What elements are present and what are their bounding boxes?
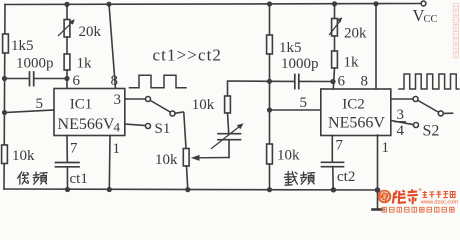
wire pin8 column IC1 [109,4,116,89]
wire pin5 row IC1 [5,110,55,113]
junction bottom bus / ct1 [65,187,70,192]
svg-text:20k: 20k [79,24,102,40]
wire pin8 column IC2 [375,4,377,89]
node pin6 IC1 [64,76,69,81]
op-amp IC2 NE566V box [321,89,391,136]
terminal Vcc [421,1,426,6]
wire ct2 to bus [332,167,334,190]
junction bottom bus / pin1 IC1 [107,187,112,192]
wire left vertical bus [4,5,5,190]
resistor 1k (IC1) [64,54,70,89]
variable capacitor [212,123,244,157]
watermark 电子市场网 small text [423,191,456,198]
svg-text:S1: S1 [155,121,171,137]
svg-text:7: 7 [336,138,344,154]
svg-text:1: 1 [382,140,390,156]
svg-text:3: 3 [397,107,405,123]
svg-text:IC2: IC2 [342,97,365,113]
watermark 维库 text [393,189,418,204]
squarewave low frequency [130,75,187,88]
capacitor 1000p (IC1) [5,72,68,86]
junction pin5 IC2 [267,107,272,112]
svg-text:1k5: 1k5 [11,38,34,54]
label 低频 (hand-drawn glyphs) [18,172,47,184]
svg-text:1000p: 1000p [281,56,319,72]
svg-text:1k5: 1k5 [279,40,302,56]
svg-text:10k: 10k [12,148,35,164]
IC2 left column 1k5 [267,4,273,144]
junction top bus / 20k IC1 [64,2,69,7]
junction top bus / 20k IC2 [332,1,337,6]
svg-text:NE566V: NE566V [328,115,385,132]
junction top bus / pin8 IC1 [106,2,111,7]
svg-text:3: 3 [114,92,122,108]
svg-text:8: 8 [111,73,119,89]
junction 1k5 / 1000p IC2 [267,79,272,84]
junction bottom bus / ct2 [331,187,336,192]
op-amp IC1 NE566V box [54,89,125,136]
resistor 1k (IC2) [332,51,338,89]
svg-text:5: 5 [300,95,308,111]
junction top bus / pin8 IC2 [373,1,378,6]
resistor 10k (IC2 lower) [267,144,273,190]
junction top bus / 1k5 IC2 [267,1,272,6]
svg-text:5: 5 [36,96,44,112]
resistor 10k (S1 leg, mid) [183,149,189,190]
svg-text:6: 6 [73,73,81,89]
wire pin5 row IC2 [270,109,321,111]
wire pin1 IC1 [108,136,111,190]
svg-text:IC1: IC1 [70,97,93,113]
svg-text:10k: 10k [192,97,215,113]
svg-text:7: 7 [70,141,78,157]
svg-text:ct1>>ct2: ct1>>ct2 [153,46,223,65]
capacitor ct1 [56,163,80,167]
svg-text:1000p: 1000p [16,56,54,72]
svg-text:NE566V: NE566V [58,116,115,133]
capacitor 1000p (IC2) [270,75,334,89]
svg-text:4: 4 [114,120,121,135]
wire pin7 IC2 [331,136,333,163]
svg-text:1k: 1k [344,55,360,71]
switch S2 [391,97,453,128]
wire pin7 IC1 [66,136,68,163]
junction bottom bus / 10k IC2 [267,187,272,192]
watermark bottom tiny slogan [382,207,454,212]
junction left bus / pin5 IC1 [2,110,7,115]
capacitor ct2 [322,162,344,166]
label 载频 (hand-drawn glyphs) [284,171,314,185]
switch S1 [125,97,186,149]
potentiometer 20k (IC2) [330,4,343,51]
svg-text:20k: 20k [344,26,367,42]
svg-text:1k: 1k [77,56,93,72]
junction bottom bus / 10k mid [185,187,190,192]
resistor 10k (mid top) [225,81,270,133]
wire bottom ground bus [4,189,378,190]
junction 1k5 / 1000p IC1 [2,76,7,81]
svg-text:1: 1 [113,141,121,157]
svg-text:ct1: ct1 [70,171,88,187]
wiper arrow into 10k [191,155,229,161]
wire top supply bus [5,4,421,5]
label Vcc [413,6,438,25]
squarewave carrier [399,74,459,89]
ground stub bar [373,208,383,211]
node pin6 IC2 [330,79,335,84]
svg-text:www.dzsc.com: www.dzsc.com [420,200,458,206]
watermark faint vertical text right edge [453,4,458,58]
resistor 10k (IC1 lower left) [2,145,8,164]
svg-text:10k: 10k [155,152,178,168]
wire ct1 to bus [66,167,68,190]
watermark logo circle [378,190,392,204]
svg-text:8: 8 [361,74,369,90]
potentiometer 20k (IC1) [59,5,75,55]
junction bottom bus / pin1 IC2 [375,187,381,193]
svg-text:4: 4 [397,123,405,139]
pin 3/4 divider IC2 [394,121,406,123]
svg-text:CC: CC [424,14,438,25]
resistor R1 1k5 (IC1) [3,34,9,53]
svg-text:S2: S2 [423,123,440,140]
svg-text:6: 6 [338,74,346,90]
svg-text:ct2: ct2 [337,169,355,185]
svg-text:10k: 10k [277,148,300,164]
watermark TM [419,189,422,191]
wire pin1 IC2 down to stub [377,135,379,209]
